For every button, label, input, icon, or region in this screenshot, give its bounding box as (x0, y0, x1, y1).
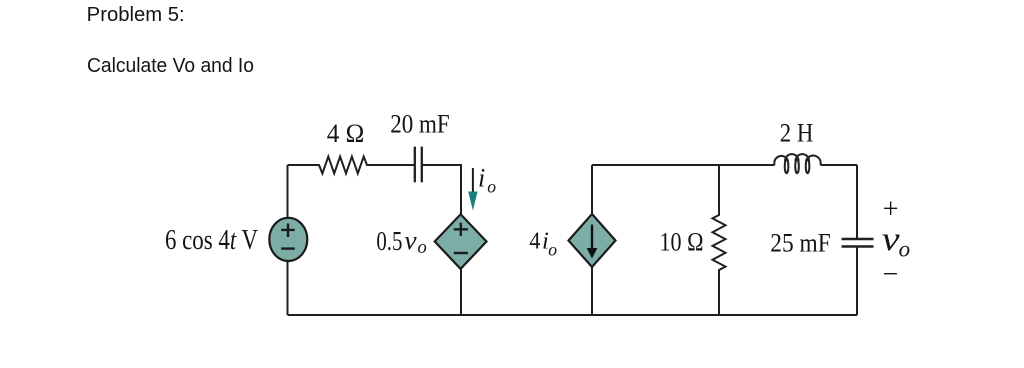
svg-text:4 Ω: 4 Ω (327, 119, 365, 148)
svg-text:2 H: 2 H (780, 119, 814, 148)
svg-text:−: − (883, 259, 899, 290)
svg-text:v: v (882, 221, 900, 258)
svg-text:6 cos 4t V: 6 cos 4t V (165, 225, 258, 256)
svg-text:v: v (404, 226, 417, 255)
svg-text:o: o (418, 238, 427, 258)
svg-text:10 Ω: 10 Ω (660, 228, 704, 257)
svg-text:Problem 5:: Problem 5: (87, 4, 185, 26)
svg-text:25 mF: 25 mF (770, 228, 831, 257)
svg-text:o: o (548, 240, 557, 260)
svg-text:Calculate Vo and Io: Calculate Vo and Io (87, 55, 254, 77)
svg-text:o: o (487, 177, 496, 197)
svg-text:0.5: 0.5 (376, 225, 402, 256)
svg-text:i: i (478, 163, 485, 192)
svg-text:o: o (899, 237, 911, 262)
svg-text:20 mF: 20 mF (390, 109, 450, 138)
svg-text:4: 4 (529, 228, 540, 255)
